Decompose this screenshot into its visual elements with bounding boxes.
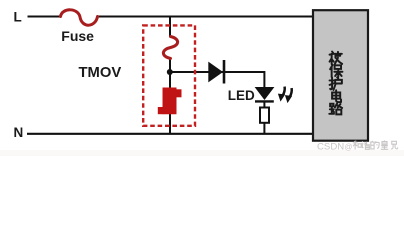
svg-text:N: N — [14, 125, 24, 140]
svg-text:TMOV: TMOV — [79, 65, 122, 81]
svg-text:Fuse: Fuse — [61, 28, 94, 44]
svg-text:LED: LED — [228, 88, 255, 103]
svg-text:CSDN: CSDN — [317, 142, 344, 153]
svg-text:L: L — [14, 9, 22, 24]
svg-text:@: @ — [345, 142, 353, 151]
